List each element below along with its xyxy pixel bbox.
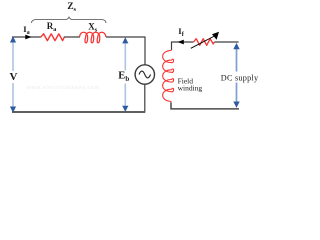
wire top left segment bbox=[12, 36, 41, 38]
sine wave inside AC source bbox=[139, 71, 151, 78]
field winding bottom wire bbox=[171, 102, 239, 109]
resistor Ra (red zigzag) bbox=[41, 34, 65, 41]
voltage arrow Eb (blue double-headed) bbox=[118, 37, 131, 112]
wire below AC source bbox=[144, 84, 146, 111]
svg-text:winding: winding bbox=[178, 83, 203, 92]
wire between Ra and Xs bbox=[64, 36, 80, 38]
svg-text:V: V bbox=[10, 71, 18, 83]
field winding coil (red vertical) bbox=[163, 50, 174, 101]
current arrow Ia bbox=[25, 35, 31, 40]
brace over Zs bbox=[32, 17, 107, 23]
field winding top stub bbox=[172, 42, 194, 50]
rheostat (variable resistor, red zigzag) bbox=[194, 39, 215, 46]
voltage arrow V (blue double-headed) bbox=[9, 36, 18, 112]
svg-text:www.electricaleasy.com: www.electricaleasy.com bbox=[26, 85, 100, 91]
inductor Xs (red coil) bbox=[80, 32, 106, 43]
wire bottom left bbox=[12, 111, 145, 113]
rheostat arrow (diagonal) bbox=[191, 36, 215, 48]
DC supply arrow (blue double-headed) bbox=[220, 43, 257, 108]
AC source (back EMF) circle bbox=[135, 65, 154, 84]
svg-text:DC supply: DC supply bbox=[221, 74, 259, 83]
wire rheostat to right bbox=[215, 41, 239, 43]
current arrow If (points left) bbox=[178, 40, 184, 45]
wire from Xs to AC source branch bbox=[106, 37, 145, 65]
